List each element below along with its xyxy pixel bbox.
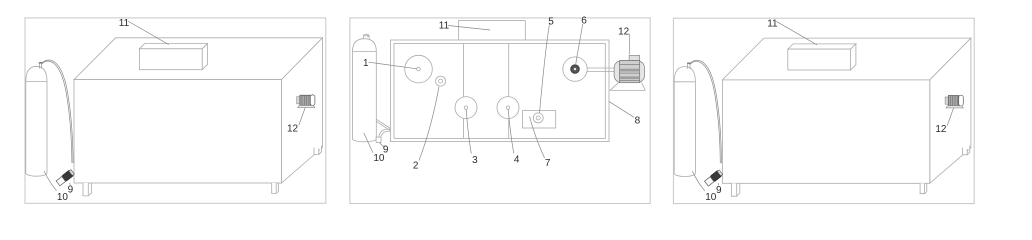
svg-text:7: 7 — [545, 158, 551, 169]
svg-text:1: 1 — [363, 58, 369, 69]
svg-text:5: 5 — [548, 16, 554, 27]
svg-text:2: 2 — [413, 160, 419, 171]
svg-text:8: 8 — [635, 116, 641, 127]
svg-text:4: 4 — [514, 154, 520, 165]
svg-text:3: 3 — [472, 155, 478, 166]
svg-text:11: 11 — [439, 21, 450, 32]
svg-text:6: 6 — [581, 16, 587, 27]
svg-text:12: 12 — [618, 26, 630, 37]
svg-text:10: 10 — [373, 153, 385, 164]
